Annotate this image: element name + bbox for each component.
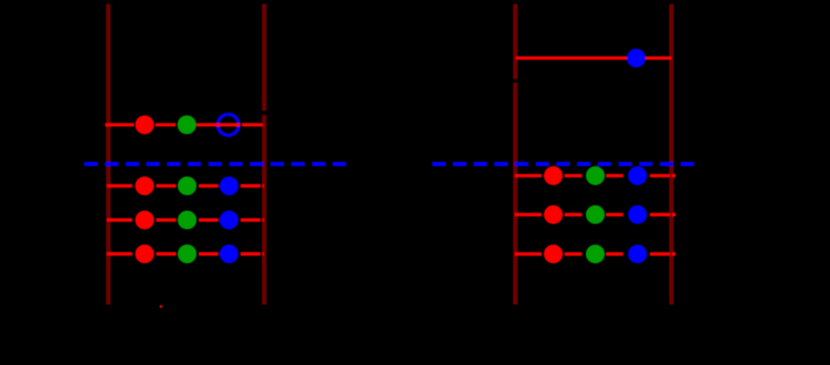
right well: right wall bbox=[669, 4, 673, 305]
E4 red electron bbox=[135, 245, 154, 264]
E3 blue electron bbox=[220, 211, 239, 230]
right chemical potential mu (dashed blue) bbox=[432, 162, 695, 166]
left well: hole level E1 (dashed red) bbox=[105, 123, 263, 126]
E2 red electron bbox=[135, 177, 154, 196]
E1 line over hole bbox=[197, 123, 241, 126]
E4 green electron bbox=[178, 245, 197, 264]
E1 red electron bbox=[135, 115, 154, 134]
left well: level E2 (dashed red) bbox=[107, 184, 264, 187]
left well: left wall bbox=[106, 4, 110, 305]
right well: level F2 (dashed red) bbox=[515, 213, 676, 216]
E3 green electron bbox=[178, 211, 197, 230]
E3 red electron bbox=[135, 211, 154, 230]
left well: right wall (with gap) bbox=[262, 4, 266, 305]
F2 red electron bbox=[544, 205, 563, 224]
E2 green electron bbox=[178, 177, 197, 196]
F1 green electron bbox=[586, 166, 605, 185]
F2 green electron bbox=[586, 205, 605, 224]
E4 blue electron bbox=[220, 245, 239, 264]
F1 red electron bbox=[544, 166, 563, 185]
F3 green electron bbox=[586, 245, 605, 264]
E2 blue electron bbox=[220, 177, 239, 196]
right well: excited level (solid red) bbox=[516, 56, 671, 59]
E1 blue hole (open circle) bbox=[218, 114, 239, 135]
right well: left wall (with gap) bbox=[513, 4, 517, 305]
E1 green electron bbox=[177, 115, 196, 134]
left well: level E3 (dashed red) bbox=[107, 218, 264, 221]
F3 blue electron bbox=[628, 245, 647, 264]
F3 red electron bbox=[544, 245, 563, 264]
excited blue electron bbox=[627, 49, 646, 68]
right well: level F1 (dashed red) bbox=[515, 174, 676, 177]
small red dot under left well bbox=[160, 305, 163, 308]
right well: level F3 (dashed red) bbox=[515, 252, 676, 255]
F1 blue electron bbox=[628, 166, 647, 185]
left chemical potential mu (dashed blue) bbox=[84, 162, 349, 166]
F2 blue electron bbox=[628, 205, 647, 224]
left well: level E4 (dashed red) bbox=[107, 252, 264, 255]
